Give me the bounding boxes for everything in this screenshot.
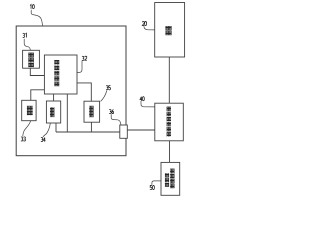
wire charging circuit to external power [169,141,171,163]
regulator block 35 [84,101,100,122]
label 20 [142,21,146,25]
label 33 [21,137,26,141]
outer device box 10 [16,26,126,156]
ADC block 34 [46,101,60,123]
leader line for label 50 [152,181,161,185]
charging circuit box 40 [155,103,184,141]
microcomputer block 32 text (5 glyphs vertical) [54,60,59,86]
label 36 [109,109,114,113]
external power box 50 [161,162,180,195]
external power box 50 text (left column 3 glyphs) [165,173,169,187]
ADC block 34 text (3 glyphs) [50,107,54,117]
wire microcomputer to ADC [53,94,55,101]
regulator block 35 text (3 glyphs) [89,106,93,117]
bus wire to connector [56,131,120,133]
battery block 31 [23,50,40,68]
leader line for label 36 [111,114,121,125]
wire ADC bottom to bus [55,123,57,132]
leader line for label 35 [101,91,107,102]
wire battery to microcomputer [30,68,44,75]
external power box 50 text (right column 4 glyphs) [170,169,174,189]
switch block 33 text (2 glyphs) [27,106,33,115]
microcomputer block 32 [44,55,77,94]
leader line for label 32 [77,61,82,73]
label 50 [150,185,154,189]
wire load to charging circuit [168,57,170,103]
charging circuit box 40 text (6 glyphs vertical) [167,107,171,137]
leader line for label 40 [141,101,155,107]
wire regulator bottom to bus [90,122,92,132]
wire microcomputer to switch [31,90,45,101]
leader line for label 33 [23,121,31,136]
leader line for label 20 [144,26,155,30]
load box 20 text (2 glyphs) [165,26,171,35]
label 31 [23,33,27,37]
battery block 31 text (3 glyphs) [28,53,34,68]
wire connector to charging circuit [127,129,155,131]
label 40 [140,97,144,101]
load box 20 [155,3,185,58]
leader line for label 34 [43,123,50,137]
leader line for label 10 [31,10,42,26]
label 34 [41,137,46,141]
label 32 [82,56,87,60]
leader line for label 31 [24,39,30,51]
wire microcomputer to regulator [77,83,91,101]
wire microcomputer bottom to bus [66,94,68,132]
label 35 [106,86,111,90]
connector 36 [120,125,128,138]
label 10 [30,5,34,9]
switch block 33 [22,100,36,120]
